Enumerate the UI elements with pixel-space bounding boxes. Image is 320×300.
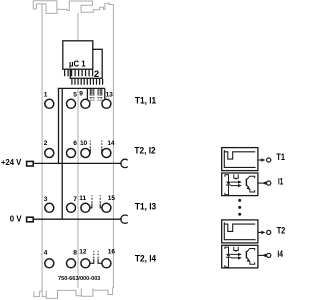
- terminal 10: [81, 149, 90, 158]
- microcontroller box U1 µC 1: [63, 41, 93, 69]
- T2 terminal circle: [267, 230, 271, 234]
- terminal 4: [45, 259, 54, 268]
- wire bus under µC: [58, 88, 105, 219]
- I1 input line and arrow: [258, 182, 266, 184]
- light arrow heads block 2: [238, 253, 242, 256]
- terminal 2: [45, 149, 54, 158]
- terminal 16: [102, 259, 111, 268]
- transistor collector: [246, 176, 254, 180]
- svg-text:8: 8: [73, 250, 77, 257]
- wire bundle dashed part: [90, 94, 102, 100]
- wire drop to 0V rail: [61, 88, 63, 219]
- wire hook terminal 11: [90, 203, 92, 207]
- svg-text:I1: I1: [278, 177, 283, 187]
- I4 input line and arrow: [258, 254, 266, 256]
- wire hook terminal 16: [98, 259, 102, 263]
- svg-text:13: 13: [106, 91, 114, 98]
- hook wires dashed parts: [90, 141, 102, 259]
- wire bundle solid part: [90, 88, 102, 94]
- 0V rail wire: [34, 218, 122, 220]
- terminal circles: [45, 99, 111, 267]
- svg-text:15: 15: [108, 195, 116, 202]
- light arrow 4: [231, 257, 238, 259]
- optocoupler block 2 (I4): [222, 245, 258, 268]
- terminal 14: [102, 149, 111, 158]
- module right edge: [112, 5, 114, 289]
- light arrow 3: [231, 253, 238, 255]
- T1 output line and arrow: [258, 159, 262, 161]
- transistor Q2 collector: [246, 249, 254, 253]
- svg-text:µC 1: µC 1: [69, 58, 86, 68]
- svg-text:4: 4: [44, 250, 48, 257]
- wire hook terminal 14: [101, 149, 103, 153]
- 0V plug connector: [27, 217, 34, 222]
- µC 1 pins: [65, 69, 93, 76]
- terminal 6: [67, 149, 76, 158]
- +24V rail wire: [34, 162, 122, 164]
- wire hook terminal 15: [100, 203, 102, 207]
- wire drop to terminal 9: [86, 88, 88, 100]
- svg-text:10: 10: [80, 140, 88, 147]
- terminal 11: [81, 203, 90, 212]
- svg-text:3: 3: [44, 196, 48, 203]
- svg-text:T1, I1: T1, I1: [135, 96, 156, 106]
- light arrow 1: [231, 181, 238, 183]
- microcontroller box 2 (behind, offset): [70, 49, 102, 78]
- terminal number labels: [44, 91, 116, 257]
- terminal 1: [45, 99, 54, 108]
- wire hook terminal 10: [89, 149, 92, 153]
- light arrow 2: [231, 185, 238, 187]
- svg-text:T1: T1: [276, 152, 285, 162]
- transistor Q2 emitter: [246, 257, 254, 264]
- center divider upper segment: [77, 13, 79, 40]
- +24V jumper contact arc: [121, 159, 128, 167]
- LED triangle: [226, 182, 231, 185]
- center divider lower segment: [77, 88, 79, 288]
- hook wires solid parts row2: [90, 149, 103, 264]
- channel labels left column: [134, 96, 156, 264]
- svg-text:12: 12: [79, 249, 87, 256]
- svg-text:1: 1: [44, 91, 48, 98]
- ellipsis dots between blocks: [238, 199, 241, 216]
- terminal 8: [67, 259, 76, 268]
- 0V jumper contact arc: [121, 215, 128, 223]
- T1 terminal circle: [267, 158, 271, 162]
- terminal 13: [102, 99, 111, 108]
- module left edge: [41, 4, 43, 292]
- svg-text:9: 9: [79, 91, 83, 98]
- svg-text:T2, I4: T2, I4: [135, 254, 156, 264]
- svg-text:0 V: 0 V: [10, 214, 22, 224]
- svg-text:6: 6: [73, 140, 77, 147]
- module bottom profile: [34, 288, 114, 299]
- wire hook terminal 12: [90, 259, 94, 263]
- µC 2 pins: [72, 79, 103, 85]
- transistor Q2 base bar: [245, 251, 247, 259]
- svg-text:16: 16: [108, 249, 116, 256]
- svg-text:I4: I4: [277, 249, 283, 259]
- svg-text:11: 11: [79, 195, 86, 202]
- T2 output line and arrow: [258, 231, 262, 233]
- LED D2 triangle: [226, 254, 231, 257]
- module top profile: [33, 1, 113, 14]
- svg-text:+24 V: +24 V: [1, 157, 22, 167]
- emitter arrow head Q2: [247, 258, 250, 262]
- svg-text:14: 14: [107, 140, 115, 147]
- pulse waveform: [224, 152, 255, 159]
- isolation symbol: [234, 174, 238, 179]
- wire drop to +24V rail: [58, 88, 60, 163]
- terminal 7: [67, 203, 76, 212]
- transistor base bar: [245, 179, 247, 187]
- emitter arrow head: [247, 186, 250, 190]
- I4 terminal circle: [267, 253, 271, 257]
- LED cathode bar: [226, 184, 231, 186]
- terminal 5: [67, 99, 76, 108]
- terminal 9: [81, 99, 90, 108]
- svg-text:T2, I2: T2, I2: [134, 145, 155, 155]
- pulse block 2 (T2): [222, 220, 258, 243]
- terminal 15: [102, 203, 111, 212]
- terminal 12: [81, 259, 90, 268]
- svg-text:7: 7: [73, 196, 77, 203]
- terminal 3: [45, 203, 54, 212]
- LED D2 input bends: [225, 247, 229, 254]
- optocoupler block 1 (I1): [222, 173, 258, 196]
- isolation symbol block 2: [234, 247, 238, 252]
- LED D2 cathode bar: [226, 256, 231, 258]
- axes: [224, 150, 255, 167]
- LED input bends: [225, 175, 229, 182]
- svg-text:T2: T2: [277, 225, 285, 235]
- +24V plug connector: [27, 161, 34, 166]
- svg-text:2: 2: [94, 69, 99, 79]
- pulse block 1 (T1): [222, 148, 258, 171]
- svg-text:5: 5: [73, 91, 77, 98]
- light arrow heads: [238, 180, 242, 183]
- wire drop to terminal 13: [104, 88, 106, 100]
- svg-text:750-663/000-003: 750-663/000-003: [58, 276, 101, 282]
- I1 terminal circle: [267, 181, 271, 185]
- svg-text:T1, I3: T1, I3: [135, 201, 156, 211]
- svg-text:2: 2: [44, 140, 48, 147]
- transistor emitter: [246, 185, 254, 192]
